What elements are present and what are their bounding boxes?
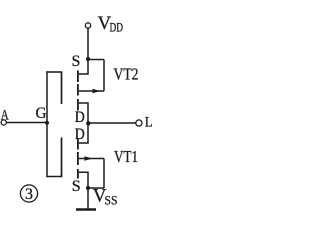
wire down right side VT1 — [103, 159, 105, 189]
gate structure top horizontal — [46, 71, 62, 73]
node S junction dot — [86, 57, 90, 61]
wire right side to S node VT1 — [88, 187, 104, 189]
transistor VT1 substrate bar — [77, 152, 79, 165]
transistor VT1 source lead — [79, 172, 88, 188]
transistor VT1 drain bar — [77, 138, 79, 150]
transistor VT1 substrate lead with arrow — [79, 158, 104, 160]
svg-text:DD: DD — [110, 21, 124, 35]
svg-text:3: 3 — [25, 186, 33, 203]
svg-text:G: G — [36, 105, 47, 122]
wire down right side VT2 — [103, 60, 105, 92]
transistor VT2 drain lead — [79, 103, 88, 123]
svg-text:D: D — [75, 109, 85, 126]
svg-text:L: L — [145, 114, 153, 130]
label VSS — [93, 186, 118, 208]
transistor VT2 source lead — [79, 59, 88, 74]
label VDD — [98, 13, 124, 35]
transistor VT1 source bar — [77, 169, 79, 179]
gate structure bottom horizontal — [46, 176, 62, 178]
transistor VT1 drain lead — [79, 123, 88, 143]
transistor VT2 drain bar — [77, 99, 79, 111]
ground — [76, 208, 96, 211]
terminal A — [1, 120, 6, 125]
terminal L — [136, 120, 142, 126]
node G junction dot — [45, 121, 49, 125]
svg-text:A: A — [1, 108, 9, 124]
svg-text:VT1: VT1 — [114, 147, 138, 166]
wire output to L — [88, 122, 136, 124]
svg-text:D: D — [75, 126, 85, 143]
svg-text:SS: SS — [105, 194, 118, 208]
wire A to G — [6, 122, 47, 124]
transistor VT2 gate bar — [61, 72, 63, 104]
transistor VT2 substrate bar — [77, 84, 79, 96]
wire to ground — [87, 188, 89, 209]
node output junction dot — [86, 121, 90, 125]
figure number circled 3 — [20, 185, 37, 202]
svg-text:VT2: VT2 — [114, 65, 139, 84]
svg-text:S: S — [72, 53, 81, 70]
transistor VT1 gate bar — [61, 138, 63, 177]
wire VDD to S node — [87, 28, 89, 59]
transistor VT2 substrate lead with arrow — [79, 90, 104, 92]
node VSS junction dot — [86, 186, 90, 190]
transistor VT2 source bar — [77, 71, 79, 83]
terminal VDD — [85, 23, 90, 28]
svg-text:S: S — [72, 178, 81, 195]
wire S node to right — [88, 59, 104, 61]
gate structure left vertical — [46, 71, 48, 177]
